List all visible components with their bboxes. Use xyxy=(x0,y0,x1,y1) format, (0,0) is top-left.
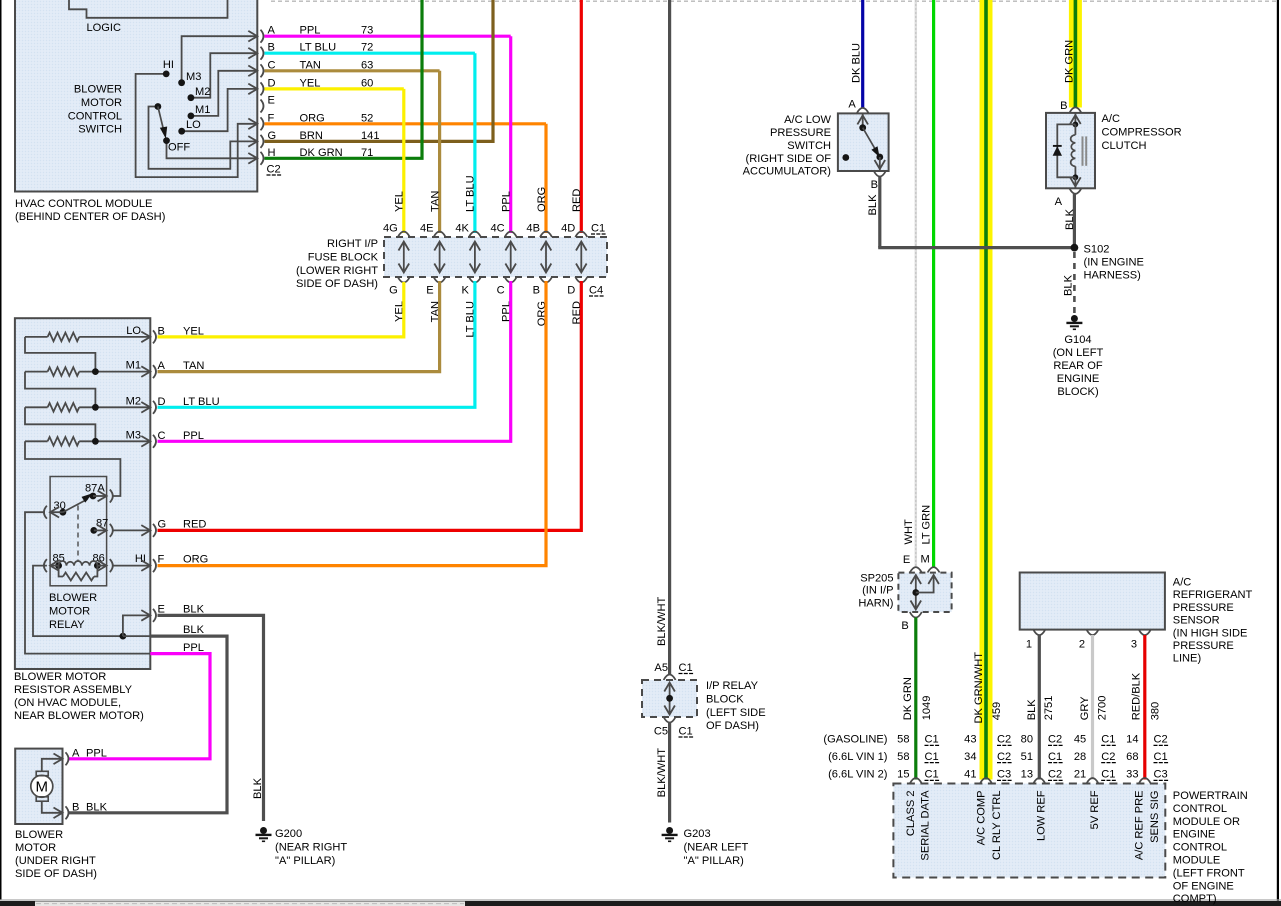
wire DK GRN pin H horizontal and up xyxy=(265,0,423,158)
pin E arrow xyxy=(141,610,150,621)
svg-text:30: 30 xyxy=(54,500,66,512)
svg-text:RED: RED xyxy=(183,518,206,530)
svg-text:SERIAL DATA: SERIAL DATA xyxy=(920,790,932,861)
relay coil parallel resistor xyxy=(59,566,63,577)
svg-text:34: 34 xyxy=(964,751,976,763)
svg-text:B: B xyxy=(533,285,540,297)
junction dot M2 xyxy=(92,404,99,411)
svg-text:68: 68 xyxy=(1126,751,1138,763)
svg-text:LT GRN: LT GRN xyxy=(921,505,933,545)
svg-text:F: F xyxy=(158,554,165,566)
svg-text:CLASS 2: CLASS 2 xyxy=(905,791,917,837)
svg-text:1: 1 xyxy=(1026,639,1032,651)
svg-text:A/C LOW: A/C LOW xyxy=(784,114,831,126)
svg-text:2751: 2751 xyxy=(1043,696,1055,721)
svg-text:ENGINE: ENGINE xyxy=(1057,373,1100,385)
wire LT BLU fuse to resistor pin D xyxy=(158,281,475,407)
junction dot M3 xyxy=(92,438,99,445)
svg-text:C1: C1 xyxy=(925,751,939,763)
fuse block internal arrow 4K xyxy=(474,244,476,271)
wire BLK clutch A to S102 xyxy=(1073,194,1076,248)
svg-text:58: 58 xyxy=(897,751,909,763)
svg-text:4E: 4E xyxy=(420,223,434,235)
svg-text:B: B xyxy=(158,325,165,337)
wire YEL fuse to resistor pin B xyxy=(158,282,404,337)
pin G arrow xyxy=(141,525,150,536)
svg-text:15: 15 xyxy=(897,769,909,781)
page frame right border xyxy=(1277,0,1279,906)
svg-text:A: A xyxy=(158,360,166,372)
svg-text:PRESSURE: PRESSURE xyxy=(1173,640,1234,652)
svg-text:MOTOR: MOTOR xyxy=(81,97,122,109)
svg-text:C2: C2 xyxy=(1154,734,1168,746)
wire BLK dashed S102 to G104 xyxy=(1073,252,1076,314)
svg-text:PPL: PPL xyxy=(183,430,204,442)
clutch coil xyxy=(1074,124,1076,134)
switch internal lone contact xyxy=(842,154,849,161)
svg-text:BLOWER: BLOWER xyxy=(74,84,122,96)
svg-text:BLOWER: BLOWER xyxy=(15,829,63,841)
svg-text:BLK: BLK xyxy=(1026,699,1038,721)
svg-text:BLK: BLK xyxy=(86,802,108,814)
svg-text:E: E xyxy=(426,285,433,297)
PCM cavity arc at x=1039.3 xyxy=(1033,778,1045,784)
svg-text:RIGHT I/P: RIGHT I/P xyxy=(327,238,378,250)
wire BLK junction to motor pin B xyxy=(68,636,227,813)
svg-text:HARNESS): HARNESS) xyxy=(1084,270,1141,282)
fuse block internal arrow 4B xyxy=(545,244,547,271)
svg-text:380: 380 xyxy=(1150,702,1162,721)
svg-text:COMPT): COMPT) xyxy=(1173,893,1217,905)
svg-text:DK GRN/WHT: DK GRN/WHT xyxy=(973,652,985,724)
svg-text:(LEFT SIDE: (LEFT SIDE xyxy=(706,707,766,719)
svg-text:SIDE OF DASH): SIDE OF DASH) xyxy=(296,278,378,290)
clutch coil core lines xyxy=(1082,136,1084,165)
svg-text:(LEFT FRONT: (LEFT FRONT xyxy=(1173,867,1245,879)
svg-text:B: B xyxy=(1060,100,1067,112)
svg-text:A/C REF PRE: A/C REF PRE xyxy=(1134,791,1146,861)
svg-text:BLOWER: BLOWER xyxy=(49,592,97,604)
svg-text:C4: C4 xyxy=(589,285,603,297)
svg-text:BLK/WHT: BLK/WHT xyxy=(656,596,668,646)
svg-text:DK BLU: DK BLU xyxy=(850,43,862,83)
svg-text:B: B xyxy=(901,620,908,632)
A/C compressor clutch box xyxy=(1046,113,1095,188)
svg-text:E: E xyxy=(158,603,165,615)
switch contact LO xyxy=(178,128,185,135)
PCM cavity arc at x=986.0 xyxy=(980,778,992,784)
svg-text:C: C xyxy=(158,430,166,442)
svg-text:OF DASH): OF DASH) xyxy=(706,720,759,732)
svg-text:RESISTOR ASSEMBLY: RESISTOR ASSEMBLY xyxy=(14,684,133,696)
wire PPL to motor pin A xyxy=(68,654,210,759)
junction dot M1 xyxy=(92,368,99,375)
I/P relay block cavity C5/C1 xyxy=(664,717,676,723)
A/C refrigerant pressure sensor box xyxy=(1020,573,1165,630)
switch internal contact arm xyxy=(863,128,879,155)
svg-text:C2: C2 xyxy=(267,164,281,176)
svg-text:(IN HIGH SIDE: (IN HIGH SIDE xyxy=(1173,627,1248,639)
svg-text:PRESSURE: PRESSURE xyxy=(770,127,831,139)
svg-text:MOTOR: MOTOR xyxy=(15,842,56,854)
fuse block internal arrow 4D xyxy=(580,244,582,271)
svg-text:G: G xyxy=(389,285,398,297)
svg-text:C1: C1 xyxy=(1048,751,1062,763)
switch wire M1 to pin C xyxy=(191,71,257,116)
svg-text:CONTROL: CONTROL xyxy=(1173,803,1227,815)
wire BLK pin E to G200 xyxy=(158,615,264,821)
resistor pin B arrow xyxy=(141,332,150,343)
svg-text:HVAC CONTROL MODULE: HVAC CONTROL MODULE xyxy=(15,198,152,210)
sensor cavity 3 xyxy=(1139,630,1151,636)
svg-text:SWITCH: SWITCH xyxy=(78,124,122,136)
resistor element M3 xyxy=(25,440,48,442)
svg-text:B: B xyxy=(871,179,878,191)
wire YEL pin D horizontal xyxy=(265,87,404,90)
svg-text:M: M xyxy=(36,778,49,795)
resistor element M1 xyxy=(25,371,48,373)
switch contact M3 xyxy=(178,79,185,86)
svg-text:M3: M3 xyxy=(126,429,141,441)
svg-text:ORG: ORG xyxy=(183,554,208,566)
svg-text:LT BLU: LT BLU xyxy=(465,175,477,212)
svg-text:C1: C1 xyxy=(591,223,605,235)
PCM cavity arc at x=1144.8 xyxy=(1139,778,1151,784)
svg-text:(IN I/P: (IN I/P xyxy=(862,585,893,597)
svg-text:HI: HI xyxy=(135,553,146,565)
ground junction dot xyxy=(120,633,127,640)
svg-text:G200: G200 xyxy=(275,828,302,840)
switch contact HI xyxy=(163,71,170,78)
svg-text:A: A xyxy=(848,99,856,111)
fuse block internal arrow 4C xyxy=(510,244,512,271)
svg-text:C5: C5 xyxy=(654,726,668,738)
svg-text:S102: S102 xyxy=(1084,244,1110,256)
svg-text:A: A xyxy=(1055,196,1063,208)
HVAC control module box xyxy=(15,0,257,192)
wire BRN pin G horizontal and up xyxy=(265,0,494,141)
svg-text:4G: 4G xyxy=(383,223,398,235)
svg-text:43: 43 xyxy=(964,734,976,746)
wire TAN pin C horizontal xyxy=(265,69,440,72)
wire BLK/WHT from top to I/P relay block xyxy=(668,0,671,675)
svg-text:C1: C1 xyxy=(679,726,693,738)
wire DK BLU from top xyxy=(861,0,864,108)
svg-text:C2: C2 xyxy=(997,751,1011,763)
svg-text:(RIGHT SIDE OF: (RIGHT SIDE OF xyxy=(746,153,832,165)
svg-text:CLUTCH: CLUTCH xyxy=(1102,140,1147,152)
wire WHT from top to SP205 xyxy=(915,0,918,567)
fuse block cavity 4K/K xyxy=(469,232,481,238)
svg-text:C1: C1 xyxy=(1101,734,1115,746)
svg-text:A/C: A/C xyxy=(1173,577,1192,589)
svg-text:LO: LO xyxy=(126,325,141,337)
clutch internal top lead xyxy=(1074,113,1076,125)
svg-text:C3: C3 xyxy=(997,769,1011,781)
svg-text:C3: C3 xyxy=(1154,769,1168,781)
wire RED fuse to relay pin G xyxy=(158,281,582,530)
clutch diode xyxy=(1053,146,1062,156)
wire PPL pin A horizontal xyxy=(265,35,511,38)
svg-text:C1: C1 xyxy=(925,769,939,781)
resistor pin C arrow xyxy=(141,436,150,447)
svg-text:4C: 4C xyxy=(491,223,505,235)
svg-text:REAR OF: REAR OF xyxy=(1053,360,1103,372)
resistor pin A arrow xyxy=(141,366,150,377)
motor pin A xyxy=(54,754,63,765)
switch contact M1 xyxy=(188,113,195,120)
switch wire HI to pin F xyxy=(136,74,258,177)
svg-text:41: 41 xyxy=(964,769,976,781)
svg-text:POWERTRAIN: POWERTRAIN xyxy=(1173,790,1248,802)
svg-text:(GASOLINE): (GASOLINE) xyxy=(823,734,887,746)
relay pin 87 xyxy=(90,527,97,534)
svg-text:BLK: BLK xyxy=(1064,208,1076,230)
wire PPL fuse to resistor pin C xyxy=(158,281,511,441)
clutch diode branch xyxy=(1057,124,1075,177)
svg-text:C1: C1 xyxy=(1154,751,1168,763)
svg-text:FUSE BLOCK: FUSE BLOCK xyxy=(308,251,379,263)
switch internal: pole A xyxy=(862,113,864,127)
svg-text:C1: C1 xyxy=(925,734,939,746)
svg-text:LINE): LINE) xyxy=(1173,653,1201,665)
svg-text:A/C: A/C xyxy=(1102,113,1121,125)
svg-text:A/C COMP: A/C COMP xyxy=(975,791,987,846)
switch wire M3 to pin A xyxy=(182,36,258,82)
relay actuate dashed link xyxy=(77,506,79,562)
svg-text:M1: M1 xyxy=(126,360,141,372)
svg-text:WHT: WHT xyxy=(903,519,915,544)
svg-text:LT BLU: LT BLU xyxy=(183,396,220,408)
wire BLK switch B vertical xyxy=(878,177,881,248)
relay pin 87A xyxy=(90,493,97,500)
svg-text:M2: M2 xyxy=(126,395,141,407)
svg-text:YEL: YEL xyxy=(394,191,406,212)
wire BLK/WHT to G203 xyxy=(668,722,671,823)
motor pin B xyxy=(54,808,63,819)
pin F arrow xyxy=(141,560,150,571)
svg-text:33: 33 xyxy=(1126,769,1138,781)
wire BLK switch B to S102 horizontal xyxy=(878,246,1074,249)
svg-text:GRY: GRY xyxy=(1079,696,1091,720)
svg-text:BLK: BLK xyxy=(1063,274,1075,296)
svg-text:MODULE OR: MODULE OR xyxy=(1173,816,1240,828)
switch movable contact arm xyxy=(155,103,162,110)
svg-text:4B: 4B xyxy=(526,223,540,235)
wire LT GRN from top to SP205 xyxy=(932,0,935,567)
wire TAN vertical to fuse block xyxy=(438,71,441,233)
sensor cavity 1 xyxy=(1033,630,1045,636)
wire YEL vertical to fuse block xyxy=(402,89,405,233)
svg-text:NEAR BLOWER MOTOR): NEAR BLOWER MOTOR) xyxy=(14,710,144,722)
ladder link M3 to relay 87A xyxy=(25,441,120,496)
svg-text:M1: M1 xyxy=(195,104,210,116)
svg-text:(UNDER RIGHT: (UNDER RIGHT xyxy=(15,855,96,867)
svg-text:HI: HI xyxy=(163,59,174,71)
switch wire common to pin G xyxy=(149,107,258,169)
svg-text:51: 51 xyxy=(1021,751,1033,763)
svg-text:58: 58 xyxy=(897,734,909,746)
svg-text:G203: G203 xyxy=(684,828,711,840)
SP205 box xyxy=(898,573,951,612)
svg-text:(NEAR RIGHT: (NEAR RIGHT xyxy=(275,842,347,854)
wire LT BLU pin B horizontal xyxy=(265,52,475,55)
svg-text:COMPRESSOR: COMPRESSOR xyxy=(1102,126,1182,138)
clutch internal bottom lead xyxy=(1074,177,1076,188)
svg-text:A5: A5 xyxy=(654,662,668,674)
svg-text:RED: RED xyxy=(571,189,583,212)
relay movable contact arm 30-87A xyxy=(63,499,88,512)
fuse block internal arrow 4E xyxy=(439,244,441,271)
svg-text:13: 13 xyxy=(1021,769,1033,781)
svg-text:K: K xyxy=(461,285,469,297)
svg-text:G104: G104 xyxy=(1064,334,1091,346)
svg-text:YEL: YEL xyxy=(183,325,204,337)
switch wire OFF to pin H xyxy=(167,141,258,159)
svg-text:RELAY: RELAY xyxy=(49,619,85,631)
svg-text:RED/BLK: RED/BLK xyxy=(1131,672,1143,720)
svg-text:C2: C2 xyxy=(1048,734,1062,746)
svg-text:(ON LEFT: (ON LEFT xyxy=(1053,347,1104,359)
switch contact M2 xyxy=(188,94,195,101)
svg-text:5V REF: 5V REF xyxy=(1089,790,1101,829)
fuse block internal arrow 4G xyxy=(403,244,405,271)
page frame left border xyxy=(0,0,2,900)
svg-text:PPL: PPL xyxy=(86,748,107,760)
svg-text:4K: 4K xyxy=(455,223,469,235)
svg-text:BLOCK): BLOCK) xyxy=(1057,386,1098,398)
PCM cavity arc at x=1092.5 xyxy=(1087,778,1099,784)
wire ORG fuse to relay pin F xyxy=(158,281,547,566)
wire TAN fuse to resistor pin A xyxy=(158,281,440,372)
svg-text:C1: C1 xyxy=(1101,769,1115,781)
svg-text:(IN ENGINE: (IN ENGINE xyxy=(1084,257,1144,269)
wire RED vertical from top to fuse block xyxy=(580,0,583,233)
ground G200 xyxy=(260,827,267,834)
svg-text:28: 28 xyxy=(1074,751,1086,763)
svg-text:REFRIGERANT: REFRIGERANT xyxy=(1173,589,1253,601)
wire BLK sensor 1 to PCM xyxy=(1038,635,1041,780)
svg-text:SENS SIG: SENS SIG xyxy=(1149,791,1161,843)
splice S102 xyxy=(1071,244,1079,252)
switch wire M2 to pin B xyxy=(191,53,257,97)
svg-text:G: G xyxy=(158,518,167,530)
A/C low pressure switch box xyxy=(838,113,889,171)
svg-text:BLOCK: BLOCK xyxy=(706,693,744,705)
fuse block cavity 4G/G xyxy=(398,232,410,238)
svg-text:M2: M2 xyxy=(195,86,210,98)
svg-text:C2: C2 xyxy=(1048,769,1062,781)
svg-text:ORG: ORG xyxy=(536,187,548,212)
svg-text:(6.6L VIN 2): (6.6L VIN 2) xyxy=(828,769,887,781)
svg-text:4D: 4D xyxy=(561,223,575,235)
svg-text:C: C xyxy=(497,285,505,297)
resistor ladder link LO-M1 xyxy=(25,337,95,372)
low pressure switch cavity B xyxy=(874,171,886,177)
svg-text:80: 80 xyxy=(1021,734,1033,746)
svg-text:(ON HVAC MODULE,: (ON HVAC MODULE, xyxy=(14,697,121,709)
svg-text:B: B xyxy=(72,802,79,814)
svg-text:DK GRN: DK GRN xyxy=(902,677,914,720)
I/P relay block box xyxy=(642,680,697,717)
svg-text:14: 14 xyxy=(1126,734,1138,746)
svg-text:TAN: TAN xyxy=(183,360,204,372)
resistor ladder link M2-M3 xyxy=(25,407,95,441)
wire DK GRN/WHT highlighted from top to PCM xyxy=(980,0,993,780)
wire RED/BLK sensor 3 to PCM xyxy=(1143,635,1146,780)
svg-text:ACCUMULATOR): ACCUMULATOR) xyxy=(743,166,831,178)
svg-text:D: D xyxy=(158,396,166,408)
resistor element M2 xyxy=(25,406,48,408)
SP205 cavity B xyxy=(910,612,922,618)
svg-text:CL RLY CTRL: CL RLY CTRL xyxy=(991,791,1003,860)
svg-text:BLK/WHT: BLK/WHT xyxy=(656,748,668,798)
svg-text:C1: C1 xyxy=(679,662,693,674)
LOGIC sub-box (cut off at top) xyxy=(69,0,228,18)
fuse block cavity 4C/C xyxy=(505,232,517,238)
blower motor resistor assembly box xyxy=(15,318,150,669)
relay coil pins 85-86 xyxy=(55,562,62,569)
clutch cavity A xyxy=(1069,188,1081,194)
svg-text:MODULE: MODULE xyxy=(1173,855,1220,867)
svg-text:E: E xyxy=(903,554,910,566)
wire relay 86 to pin F HI xyxy=(114,565,151,567)
svg-text:LOGIC: LOGIC xyxy=(87,22,122,34)
svg-text:BLOWER MOTOR: BLOWER MOTOR xyxy=(14,671,106,683)
svg-text:E: E xyxy=(268,95,275,107)
svg-text:CONTROL: CONTROL xyxy=(1173,842,1227,854)
svg-text:(6.6L VIN 1): (6.6L VIN 1) xyxy=(828,751,887,763)
switch contact OFF xyxy=(163,137,170,144)
sensor cavity 2 xyxy=(1087,630,1099,636)
wire LT BLU vertical to fuse block xyxy=(473,53,476,233)
wire GRY sensor 2 to PCM xyxy=(1091,635,1094,780)
svg-text:2: 2 xyxy=(1079,639,1085,651)
fuse block cavity 4D/D xyxy=(575,232,587,238)
wire 30 to PPL out xyxy=(25,512,150,653)
svg-text:2700: 2700 xyxy=(1096,696,1108,721)
svg-text:LO: LO xyxy=(186,119,201,131)
svg-text:C2: C2 xyxy=(997,734,1011,746)
svg-text:1049: 1049 xyxy=(921,696,933,721)
svg-text:ENGINE: ENGINE xyxy=(1173,829,1216,841)
fuse block cavity 4E/E xyxy=(434,232,446,238)
svg-text:SIDE OF DASH): SIDE OF DASH) xyxy=(15,868,97,880)
resistor element LO xyxy=(25,336,48,338)
svg-text:DK GRN: DK GRN xyxy=(1063,40,1075,83)
I/P relay block cavity A5/C1 xyxy=(664,675,676,681)
svg-text:A: A xyxy=(72,748,80,760)
svg-text:PRESSURE: PRESSURE xyxy=(1173,602,1234,614)
powertrain control module box xyxy=(893,784,1165,878)
svg-text:OFF: OFF xyxy=(168,142,190,154)
svg-text:SP205: SP205 xyxy=(860,573,893,585)
ground G104 xyxy=(1071,315,1078,322)
svg-text:(LOWER RIGHT: (LOWER RIGHT xyxy=(296,265,378,277)
motor symbol xyxy=(31,775,53,797)
PCM cavity arc at x=915.8 xyxy=(910,778,922,784)
wire ORG vertical to fuse block xyxy=(544,124,547,233)
switch wire LO to pin D xyxy=(182,89,258,131)
svg-text:PPL: PPL xyxy=(501,191,513,212)
svg-text:(NEAR LEFT: (NEAR LEFT xyxy=(684,842,749,854)
blower motor relay box xyxy=(50,477,107,586)
wire junction BLK out of box xyxy=(123,635,150,637)
svg-text:CONTROL: CONTROL xyxy=(68,110,122,122)
svg-text:LOW REF: LOW REF xyxy=(1036,790,1048,841)
wire PPL vertical to fuse block xyxy=(509,36,512,233)
svg-text:SWITCH: SWITCH xyxy=(787,140,831,152)
